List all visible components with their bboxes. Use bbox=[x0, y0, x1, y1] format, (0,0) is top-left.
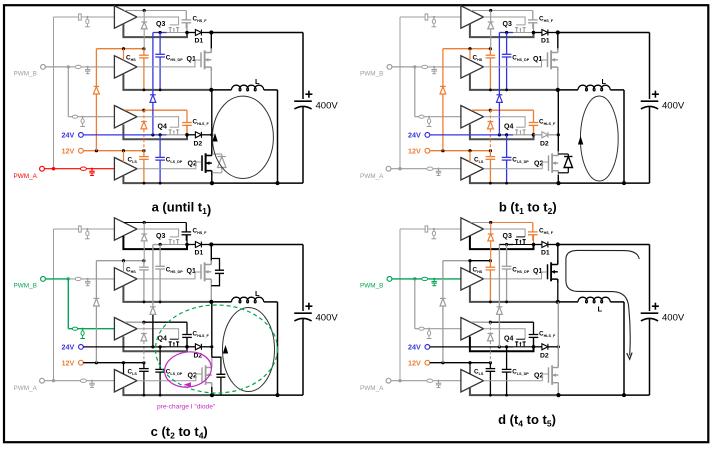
wire Q2 gate lead (c) bbox=[137, 374, 202, 381]
wire Q1 drain (b) bbox=[557, 33, 559, 51]
node D2 cathode (a) bbox=[210, 133, 213, 136]
wire C_HLS_F feed (a) bbox=[144, 109, 187, 111]
transistor Q2 (b) bbox=[548, 155, 550, 171]
node C_LS_DP top (c) bbox=[159, 345, 162, 348]
svg-text:pre-charge I "diode": pre-charge I "diode" bbox=[157, 404, 216, 411]
wire Q4 lead (b) bbox=[513, 134, 534, 136]
wire 24V (c) bbox=[83, 346, 166, 348]
node inductor return ground (c) bbox=[276, 393, 280, 397]
wire Q3 lead (c) bbox=[167, 244, 188, 246]
capacitor buffer1 input shunt (b) bbox=[433, 17, 435, 19]
wire Q1 source to switch node (d) bbox=[557, 283, 559, 302]
wire buffer2 input (b) bbox=[415, 66, 422, 68]
node Q2 ground (c) bbox=[210, 393, 214, 397]
capacitor C_LS_DP (a) bbox=[159, 135, 161, 158]
wire C_HLS_F feed (c) bbox=[144, 321, 187, 323]
diode 12V dashed drop (c) bbox=[141, 333, 147, 335]
wire PWM_A-to-buffer1 vertical (a) bbox=[53, 17, 55, 169]
wire boot diode drop (a) bbox=[143, 11, 145, 22]
node Q2 ground (a) bbox=[210, 181, 214, 185]
buffer U3 (Q4 driver) (d) bbox=[461, 318, 484, 340]
terminal PWM_A (c) bbox=[40, 378, 45, 383]
svg-text:D1: D1 bbox=[541, 38, 550, 45]
capacitor C_LS_DP (c) bbox=[159, 347, 161, 370]
diode 24V riser (b) bbox=[497, 94, 503, 96]
inductor L (c) bbox=[232, 297, 264, 303]
node 12V-buffer2 stub (d) bbox=[468, 259, 471, 262]
wire PWM_A-to-buffer1 vertical (d) bbox=[399, 229, 401, 381]
capacitor buffer1 input shunt (a) bbox=[86, 17, 88, 19]
svg-text:PWM_A: PWM_A bbox=[14, 385, 38, 392]
current loop arrow (c) bbox=[223, 345, 228, 354]
wire switch node down (c) bbox=[211, 302, 213, 357]
wire buffer1 input (b) bbox=[400, 16, 425, 18]
wire PWM_B (a) bbox=[45, 66, 68, 68]
wire Q4 drain lead (c) bbox=[186, 337, 188, 346]
node D1 cathode (d) bbox=[556, 242, 560, 246]
node PWM_A junction (b) bbox=[398, 167, 401, 170]
buffer U2 (HS driver) (a) bbox=[114, 56, 137, 78]
terminal PWM_A (b) bbox=[386, 166, 391, 171]
inductor L (a) bbox=[232, 85, 264, 91]
terminal 24V (c) bbox=[79, 345, 84, 350]
capacitor buffer3 input shunt (b) bbox=[428, 117, 430, 119]
node D2 cathode (d) bbox=[557, 345, 560, 348]
node 24V riser (d) bbox=[498, 345, 501, 348]
svg-text:Q4: Q4 bbox=[504, 336, 513, 343]
diode boot drop (a) bbox=[141, 21, 147, 23]
transistor Q1 (b) bbox=[547, 52, 549, 67]
wire Q1 source to switch node (a) bbox=[210, 71, 212, 90]
wire Q3 lead (a) bbox=[167, 32, 188, 34]
wire Q4 drain lead (d) bbox=[533, 337, 535, 346]
current loop ellipse (c) bbox=[223, 308, 275, 392]
wire Q4 lead (d) bbox=[513, 346, 534, 348]
node Q3 drain (a) bbox=[185, 31, 189, 35]
wire boot diode drop (d) bbox=[490, 223, 492, 234]
node C_LS top (c) bbox=[142, 361, 145, 364]
wire driver3 return rail (a) bbox=[123, 125, 187, 140]
node C_HS_F feed (d) bbox=[489, 221, 492, 224]
wire Q3 lead (b) bbox=[513, 32, 534, 34]
node PWM_A junction (d) bbox=[398, 379, 401, 382]
resistor buffer1 input series (b) bbox=[425, 14, 428, 20]
transistor Q4 (a) bbox=[169, 130, 171, 135]
wire driver4 return rail (d) bbox=[470, 388, 559, 395]
wire inductor to return (d) bbox=[610, 301, 624, 303]
buffer U3 (Q4 driver) (c) bbox=[114, 318, 137, 340]
wire driver4 return rail (a) bbox=[123, 176, 212, 183]
capacitor C_LS (c) bbox=[143, 363, 145, 369]
wire buffer4 VDD stub (b) bbox=[469, 151, 471, 162]
terminal 12V (d) bbox=[425, 360, 430, 365]
capacitor C_HS_F (a) bbox=[185, 11, 187, 20]
capacitor 400V bus (a) bbox=[294, 100, 312, 102]
wire 12V (a) bbox=[83, 150, 144, 152]
wire inductor to return (c) bbox=[264, 301, 278, 303]
wire C_HS_F bottom lead (b) bbox=[533, 23, 535, 33]
node C_HS_DP rail tap (b) bbox=[505, 89, 508, 92]
wire boot top run (b) bbox=[499, 32, 513, 34]
wire PWM_A (a) bbox=[44, 168, 80, 170]
capacitor C_LS (b) bbox=[489, 151, 491, 157]
wire 400V positive (b) bbox=[649, 33, 651, 100]
wire 12V dashed drop (a) bbox=[143, 110, 145, 121]
capacitor C_HS_F (c) bbox=[185, 223, 187, 232]
svg-text:L: L bbox=[255, 289, 260, 298]
node C_HS rail tap (d) bbox=[489, 301, 492, 304]
capacitor C_HS_DP (d) bbox=[506, 245, 508, 267]
current path arrow (d) bbox=[627, 353, 632, 360]
wire 12V (b) bbox=[430, 150, 491, 152]
wire Q2 source to ground (c) bbox=[211, 387, 213, 395]
svg-text:400V: 400V bbox=[662, 101, 685, 112]
svg-text:Q3: Q3 bbox=[503, 21, 512, 28]
buffer U2 (HS driver) (b) bbox=[461, 56, 484, 78]
node C_LS_DP rail tap (c) bbox=[159, 394, 162, 397]
terminal 12V (c) bbox=[79, 360, 84, 365]
wire C_HS_F bottom lead (a) bbox=[186, 23, 188, 33]
terminal PWM_A (a) bbox=[40, 166, 45, 171]
wire driver1 return rail (d) bbox=[470, 236, 534, 249]
capacitor PWM_A shunt (a) bbox=[91, 169, 93, 171]
node C_HS_F feed (c) bbox=[143, 221, 146, 224]
resistor buffer3 input series (d) bbox=[419, 327, 424, 330]
node C_HS rail tap (c) bbox=[143, 301, 146, 304]
node switch (c) bbox=[209, 300, 213, 304]
wire 12V dashed drop (c) bbox=[143, 322, 145, 333]
svg-text:12V: 12V bbox=[62, 146, 75, 155]
terminal PWM_B (d) bbox=[387, 277, 392, 282]
wire Q3 lead (d) bbox=[513, 244, 534, 246]
wire top rail (c) bbox=[211, 244, 303, 246]
node switch (b) bbox=[556, 88, 560, 92]
node C_HS_F feed (b) bbox=[489, 9, 492, 12]
wire 400V positive (a) bbox=[302, 33, 304, 100]
node C_HS_DP top (a) bbox=[159, 31, 162, 34]
wire Q4 gate lead (a) bbox=[137, 117, 179, 128]
capacitor 400V bus (c) bbox=[294, 312, 312, 314]
wire PWM_B branch to buffer3 (d) bbox=[414, 279, 416, 329]
buffer U4 (LS driver) (a) bbox=[114, 158, 137, 180]
svg-text:400V: 400V bbox=[316, 313, 339, 324]
capacitor C_HS_DP (c) bbox=[159, 245, 161, 267]
wire Q2 gate lead (a) bbox=[137, 162, 202, 169]
wire Q1 drain (a) bbox=[210, 33, 212, 51]
wire PWM_B (d) bbox=[392, 278, 415, 280]
wire 12V top run (c) bbox=[96, 260, 123, 262]
resistor buffer3 input series (b) bbox=[419, 115, 424, 118]
resistor buffer2 input series (a) bbox=[75, 65, 81, 68]
wire driver1 return rail (c) bbox=[123, 236, 187, 249]
node D1 cathode (b) bbox=[556, 30, 560, 34]
wire switch to inductor (c) bbox=[211, 301, 231, 303]
node switch (d) bbox=[556, 300, 560, 304]
wire 12V (c) bbox=[83, 362, 144, 364]
transistor Q3 (d) bbox=[516, 240, 518, 245]
diode boot drop (b) bbox=[488, 21, 494, 23]
node C_HS rail tap (a) bbox=[143, 89, 146, 92]
node 12V riser (d) bbox=[441, 361, 444, 364]
buffer U1 (Q3 driver) (a) bbox=[114, 6, 137, 28]
resistor PWM_A series (a) bbox=[80, 167, 86, 170]
resistor buffer3 input series (a) bbox=[72, 115, 77, 118]
terminal 24V (a) bbox=[79, 133, 84, 138]
capacitor Coss Q1 (c) bbox=[211, 259, 219, 271]
wire Q4 gate lead (c) bbox=[137, 329, 179, 340]
wire 12V dashed drop (d) bbox=[489, 322, 491, 333]
wire driver4 return rail (c) bbox=[123, 388, 212, 395]
buffer U4 (LS driver) (c) bbox=[114, 370, 137, 392]
capacitor C_HLS_F (a) bbox=[186, 122, 188, 124]
wire Q1 gate lead (c) bbox=[137, 272, 201, 279]
buffer U2 (HS driver) (c) bbox=[114, 268, 137, 290]
wire buffer2 input (d) bbox=[415, 278, 422, 280]
wire 12V (d) bbox=[430, 362, 491, 364]
transistor Q4 (c) bbox=[169, 342, 171, 347]
wire buffer4 VDD stub (c) bbox=[123, 363, 125, 374]
node D1 cathode (c) bbox=[209, 242, 213, 246]
wire switch to inductor (b) bbox=[558, 89, 578, 91]
node switch (a) bbox=[209, 88, 213, 92]
terminal 24V (d) bbox=[425, 345, 430, 350]
svg-text:24V: 24V bbox=[408, 343, 421, 352]
wire C_HS_F feed (d) bbox=[471, 222, 491, 224]
terminal PWM_B (a) bbox=[41, 65, 46, 70]
wire buffer4 VDD stub (d) bbox=[469, 363, 471, 374]
wire boot top run (a) bbox=[153, 32, 167, 34]
node 24V riser (c) bbox=[151, 345, 154, 348]
wire 12V top run (d) bbox=[443, 260, 470, 262]
transistor Q1 (c) bbox=[200, 264, 202, 279]
svg-text:12V: 12V bbox=[408, 146, 421, 155]
capacitor C_HLS_F (d) bbox=[533, 334, 535, 336]
node C_LS rail tap (c) bbox=[143, 394, 146, 397]
wire buffer4 VDD stub (a) bbox=[123, 151, 125, 162]
wire Q1 gate lead (b) bbox=[484, 60, 548, 67]
wire C_HLS_F feed (b) bbox=[490, 109, 533, 111]
capacitor C_HS (a) bbox=[143, 49, 145, 56]
wire Q3 gate lead (d) bbox=[484, 229, 526, 237]
buffer U3 (Q4 driver) (b) bbox=[461, 106, 484, 128]
wire buffer2 VDD stub (c) bbox=[123, 261, 125, 273]
node Q4 drain (c) bbox=[185, 345, 189, 349]
node 12V riser (a) bbox=[95, 149, 98, 152]
capacitor C_LS (d) bbox=[489, 363, 491, 369]
node 12V-buffer2 stub (a) bbox=[122, 47, 125, 50]
wire Q2 source to ground (a) bbox=[211, 175, 213, 183]
wire C_HS_F feed (b) bbox=[471, 10, 491, 12]
wire PWM_B branch to buffer3 (a) bbox=[67, 67, 69, 117]
svg-text:D1: D1 bbox=[541, 250, 550, 257]
wire Q3 gate lead (b) bbox=[484, 17, 526, 25]
diode 24V riser (a) bbox=[150, 94, 156, 96]
wire driver4 return rail (b) bbox=[470, 176, 559, 183]
capacitor C_HS_F (d) bbox=[532, 223, 534, 232]
wire switch node down (b) bbox=[557, 90, 559, 154]
node D2 cathode (c) bbox=[210, 345, 213, 348]
wire 12V top run right (a) bbox=[124, 48, 145, 50]
node Q3 drain (b) bbox=[532, 31, 536, 35]
capacitor C_HS (c) bbox=[143, 261, 145, 268]
capacitor C_LS (a) bbox=[143, 151, 145, 157]
svg-text:12V: 12V bbox=[62, 358, 75, 367]
resistor buffer1 input series (c) bbox=[79, 226, 82, 232]
capacitor C_HS (b) bbox=[489, 49, 491, 56]
node 12V buffer4 stub (b) bbox=[468, 149, 471, 152]
wire switch to inductor (d) bbox=[558, 301, 578, 303]
wire buffer3 VDD (d) bbox=[472, 321, 491, 323]
resistor PWM_A series (c) bbox=[80, 379, 86, 382]
diode 12V riser (b) bbox=[440, 85, 446, 87]
wire PWM_A (d) bbox=[391, 380, 427, 382]
capacitor C_LS_DP (d) bbox=[506, 347, 508, 370]
capacitor buffer3 input shunt (d) bbox=[428, 329, 430, 331]
current loop ellipse (b) bbox=[580, 96, 618, 181]
wire PWM_B (b) bbox=[392, 66, 415, 68]
wire PWM_B (c) bbox=[45, 278, 68, 280]
body diode Q2 (conducting) (b) bbox=[564, 156, 572, 158]
wire boot diode drop (c) bbox=[143, 223, 145, 234]
transistor Q4 (b) bbox=[516, 130, 518, 135]
node 24V riser (b) bbox=[498, 133, 501, 136]
node C_HS top (b) bbox=[489, 47, 492, 50]
diode D2 (c) bbox=[187, 346, 195, 348]
node C_HS top (c) bbox=[142, 259, 145, 262]
wire buffer3 VDD (a) bbox=[125, 109, 144, 111]
wire C_HS_F bottom lead (c) bbox=[186, 235, 188, 245]
node C_HS top (a) bbox=[142, 47, 145, 50]
node 12V buffer4 stub (d) bbox=[468, 361, 471, 364]
transistor Q2 (a) bbox=[201, 155, 203, 171]
wire Q1 source to switch node (c) bbox=[210, 283, 212, 302]
capacitor C_HLS_F (b) bbox=[533, 122, 535, 124]
svg-text:24V: 24V bbox=[62, 131, 75, 140]
wire boot top run (c) bbox=[153, 244, 167, 246]
diode D2 (d) bbox=[534, 346, 542, 348]
node C_LS top (d) bbox=[489, 361, 492, 364]
wire boot top run (d) bbox=[499, 244, 513, 246]
svg-text:24V: 24V bbox=[408, 131, 421, 140]
terminal 24V (b) bbox=[425, 133, 430, 138]
diode 12V riser (a) bbox=[94, 85, 100, 87]
diode D1 (c) bbox=[187, 244, 195, 246]
diode D2 (a) bbox=[187, 134, 195, 136]
node C_HS rail tap (b) bbox=[489, 89, 492, 92]
wire 12V riser (d) bbox=[442, 306, 444, 363]
node buffer3 VDD (c) bbox=[142, 321, 145, 324]
transistor Q3 (a) bbox=[169, 28, 171, 33]
capacitor 400V bus (d) bbox=[641, 312, 659, 314]
transistor Q2 (c) bbox=[201, 367, 203, 383]
diode D1 (a) bbox=[187, 32, 195, 34]
buffer U1 (Q3 driver) (c) bbox=[114, 218, 137, 240]
wire 24V riser lower black (c) bbox=[152, 315, 154, 347]
svg-text:D2: D2 bbox=[540, 353, 549, 360]
wire buffer2 VDD stub (a) bbox=[123, 49, 125, 61]
inductor L (b) bbox=[578, 85, 610, 91]
node PWM_A junction (a) bbox=[52, 167, 55, 170]
diode 12V dashed drop (b) bbox=[488, 121, 494, 123]
diode 12V riser (c) bbox=[94, 297, 100, 299]
pre-charge loop green dashed (c) bbox=[156, 305, 278, 393]
node C_LS_DP top (b) bbox=[505, 133, 508, 136]
wire Q3 gate lead (c) bbox=[137, 229, 179, 237]
wire Q4 lead (c) bbox=[167, 346, 188, 348]
node PWM_A junction (c) bbox=[52, 379, 55, 382]
wire Q4 gate lead (d) bbox=[484, 329, 526, 340]
terminal 12V (b) bbox=[425, 148, 430, 153]
wire buffer2 input (a) bbox=[68, 66, 75, 68]
buffer U4 (LS driver) (b) bbox=[461, 158, 484, 180]
node C_LS_DP top (d) bbox=[505, 345, 508, 348]
resistor PWM_A series (b) bbox=[427, 167, 433, 170]
node Q2 ground (d) bbox=[556, 393, 560, 397]
current loop arrow (b) bbox=[578, 136, 583, 145]
capacitor buffer1 input shunt (d) bbox=[433, 229, 435, 231]
wire switch node down (d) bbox=[557, 302, 559, 366]
filter buffer2 input shunt (b) bbox=[433, 67, 435, 69]
wire inductor to return (b) bbox=[610, 89, 624, 91]
terminal 12V (a) bbox=[79, 148, 84, 153]
current path swoosh (d) bbox=[566, 250, 639, 355]
transistor Q3 (b) bbox=[516, 28, 518, 33]
terminal PWM_B (b) bbox=[387, 65, 392, 70]
wire top rail (a) bbox=[211, 32, 303, 34]
capacitor Coss Q2 (c) bbox=[212, 357, 221, 374]
svg-text:D2: D2 bbox=[194, 141, 203, 148]
svg-text:PWM_B: PWM_B bbox=[360, 71, 383, 78]
buffer U1 (Q3 driver) (b) bbox=[461, 6, 484, 28]
resistor buffer2 input series (c) bbox=[75, 277, 81, 280]
diode 24V riser (c) bbox=[150, 306, 156, 308]
svg-text:24V: 24V bbox=[62, 343, 75, 352]
wire Q2 gate lead (b) bbox=[484, 162, 549, 169]
svg-text:Q3: Q3 bbox=[503, 233, 512, 240]
wire buffer2 VDD stub (b) bbox=[469, 49, 471, 61]
buffer U3 (Q4 driver) (a) bbox=[114, 106, 137, 128]
node C_LS_DP rail tap (d) bbox=[505, 394, 508, 397]
node buffer3 VDD (d) bbox=[489, 321, 492, 324]
wire buffer1 input (c) bbox=[54, 228, 79, 230]
transistor Q2 (d) bbox=[548, 367, 550, 383]
label + polarity (a) bbox=[305, 93, 312, 95]
wire driver1 return rail (b) bbox=[470, 24, 534, 37]
wire inductor to return (a) bbox=[264, 89, 278, 91]
wire Q1 source to switch node (b) bbox=[557, 71, 559, 90]
node C_LS rail tap (a) bbox=[143, 182, 146, 185]
pre-charge loop magenta (c) bbox=[162, 349, 213, 390]
wire ground rail right (b) bbox=[559, 182, 650, 184]
node PWM_B branch (d) bbox=[413, 277, 416, 280]
pre-charge arrow magenta (c) bbox=[184, 382, 192, 387]
svg-text:L: L bbox=[598, 305, 603, 314]
transistor Q3 (c) bbox=[169, 240, 171, 245]
svg-text:PWM_B: PWM_B bbox=[14, 71, 37, 78]
wire Q2 source to ground (b) bbox=[557, 175, 559, 183]
wire 400V positive (d) bbox=[649, 245, 651, 312]
wire Q1 gate lead (a) bbox=[137, 60, 201, 67]
wire ground rail right (a) bbox=[212, 182, 303, 184]
node PWM_B branch (b) bbox=[413, 65, 416, 68]
wire driver2 return rail (c) bbox=[123, 286, 211, 302]
wire Q1 gate lead (d) bbox=[484, 272, 548, 279]
node C_LS rail tap (d) bbox=[489, 394, 492, 397]
wire switch node down lower (c) bbox=[211, 357, 213, 366]
node Q4 drain (a) bbox=[185, 133, 189, 137]
svg-text:400V: 400V bbox=[662, 313, 685, 324]
wire C_HS_F feed (a) bbox=[124, 10, 144, 12]
